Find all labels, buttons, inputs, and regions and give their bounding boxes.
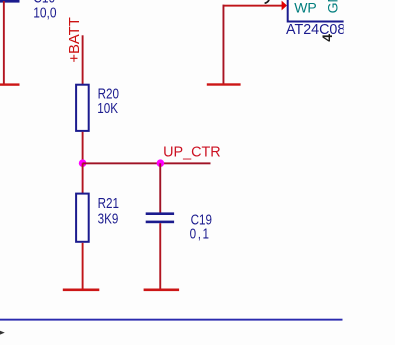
resistor R21 (76, 194, 89, 242)
ground (R21 branch) (63, 289, 100, 292)
wire junction B to C19 (159, 163, 161, 212)
svg-text:3K9: 3K9 (98, 210, 119, 227)
wire R21 to ground (82, 243, 84, 289)
svg-text:0,1: 0,1 (190, 225, 211, 242)
sheet border line (0, 319, 343, 321)
ground (chip branch) (207, 83, 241, 85)
wire WP horizontal (223, 5, 283, 7)
svg-text:10,0: 10,0 (33, 4, 57, 21)
wire junction A to R21 (82, 163, 84, 193)
wire C19 to ground (159, 223, 161, 289)
pin number fragment (cut at top edge) (265, 0, 270, 3)
svg-text:+BATT: +BATT (67, 17, 83, 62)
wire R20 to junction (82, 132, 84, 164)
node junction A (R20/R21/UP_CTR) (79, 159, 87, 167)
svg-text:GND: GND (325, 0, 341, 13)
pin arrow into WP (282, 1, 287, 11)
svg-text:WP: WP (294, 0, 317, 15)
wire WP corner down (223, 5, 225, 84)
svg-text:10K: 10K (97, 100, 118, 117)
node junction B (C19 tap) (157, 159, 165, 167)
wire +BATT rail (82, 35, 84, 84)
wire C10 lead down (3, 1, 5, 84)
ground (left edge, partial) (0, 83, 20, 85)
capacitor C19 (146, 212, 174, 223)
svg-text:UP_CTR: UP_CTR (163, 144, 221, 160)
resistor R20 (76, 85, 89, 131)
IC U? AT24C08 box (partial, top right) (288, 0, 345, 22)
capacitor C10 bottom plate (partial, cut at left edge) (0, 0, 20, 3)
svg-text:R21: R21 (98, 195, 119, 212)
wire UP_CTR horizontal (83, 162, 211, 164)
mark (bottom-left fragment) (0, 331, 5, 335)
svg-text:AT24C08: AT24C08 (286, 22, 345, 38)
ground (C19 branch) (144, 289, 180, 292)
